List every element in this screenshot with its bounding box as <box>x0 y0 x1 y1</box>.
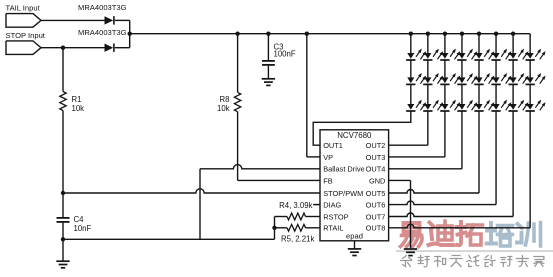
svg-text:C4: C4 <box>74 215 85 224</box>
junction rail/LED column 1 <box>409 32 413 36</box>
watermark logo text 易迪拓培训 <box>401 221 541 247</box>
LED D63 column 6 row 3 <box>491 100 511 111</box>
LED D42 column 4 row 2 <box>457 73 477 84</box>
svg-text:OUT8: OUT8 <box>366 224 386 233</box>
watermark underline <box>396 250 553 252</box>
LED D31 column 3 row 1 <box>440 49 460 60</box>
resistor R5 2.21k <box>275 224 321 243</box>
svg-text:R5, 2.21k: R5, 2.21k <box>281 235 314 244</box>
LED D62 column 6 row 2 <box>491 73 511 84</box>
wire LED column 7 <box>512 34 514 104</box>
LED D13 column 1 row 3 <box>406 100 426 111</box>
junction rail/LED column 2 <box>426 32 430 36</box>
LED D12 column 1 row 2 <box>406 73 426 84</box>
svg-text:OUT5: OUT5 <box>366 189 386 198</box>
resistor R8 10k <box>217 34 241 181</box>
wire TAIL input to D1 anode <box>41 19 105 21</box>
LED D11 column 1 row 1 <box>406 49 426 60</box>
resistor R4 3.09k <box>275 201 321 220</box>
LED D72 column 7 row 2 <box>508 73 528 84</box>
wire D1 cathode to VP node <box>115 20 130 47</box>
LED D41 column 4 row 1 <box>457 49 477 60</box>
LED D73 column 7 row 3 <box>508 100 528 111</box>
wire LED column 2 <box>427 34 429 104</box>
svg-text:DIAG: DIAG <box>323 201 341 210</box>
ground epad <box>348 249 361 256</box>
ground GND pin <box>404 249 417 256</box>
svg-text:VP: VP <box>323 153 333 162</box>
LED D82 column 8 row 2 <box>526 73 546 84</box>
svg-text:R8: R8 <box>220 95 230 104</box>
wire LED column 1 <box>410 34 412 104</box>
ground main <box>56 261 69 268</box>
svg-text:STOP/PWM: STOP/PWM <box>323 189 363 198</box>
wire LED column 3 <box>444 34 446 104</box>
junction C4/ground bus <box>61 237 65 241</box>
wire OUT4 to LED column <box>389 111 462 169</box>
wire LED column 5 <box>478 34 480 104</box>
node STOP Input <box>6 31 46 55</box>
svg-text:MRA4003T3G: MRA4003T3G <box>78 3 127 12</box>
svg-text:OUT4: OUT4 <box>366 165 386 174</box>
svg-text:epad: epad <box>346 232 363 241</box>
wire STOP input to D2 anode <box>41 47 105 49</box>
capacitor C3 100nF <box>262 34 296 78</box>
LED D33 column 3 row 3 <box>440 100 460 111</box>
wire STOP/PWM to R1-C4 node <box>63 189 320 193</box>
LED D83 column 8 row 3 <box>526 100 546 111</box>
wire LED column 6 <box>495 34 497 104</box>
wire DIAG stub <box>313 204 320 206</box>
diode D2 MRA4003T3G <box>78 28 127 52</box>
svg-text:GND: GND <box>369 176 385 185</box>
svg-text:RSTOP: RSTOP <box>323 212 348 221</box>
node TAIL Input <box>6 4 42 28</box>
LED D51 column 5 row 1 <box>474 49 494 60</box>
wire ground bus <box>63 217 275 240</box>
IC U1 NCV7680 LED driver <box>320 130 389 241</box>
diode D1 MRA4003T3G <box>78 3 127 24</box>
svg-text:10k: 10k <box>72 104 85 113</box>
svg-text:OUT6: OUT6 <box>366 201 386 210</box>
wire OUT6 to LED column <box>389 111 496 205</box>
junction rail/LED column 3 <box>443 32 447 36</box>
LED D22 column 2 row 2 <box>423 73 443 84</box>
capacitor C4 10nF <box>57 193 92 261</box>
junction rail/R8 <box>235 32 239 36</box>
junction diode-OR output <box>128 32 132 36</box>
svg-text:STOP Input: STOP Input <box>6 31 46 40</box>
svg-text:10nF: 10nF <box>74 224 92 233</box>
ground C3 <box>262 79 275 86</box>
LED D43 column 4 row 3 <box>457 100 477 111</box>
LED D61 column 6 row 1 <box>491 49 511 60</box>
resistor R1 10k <box>60 48 84 193</box>
wire OUT2 to LED column <box>389 111 428 145</box>
junction R4/R5 ground node <box>272 226 276 230</box>
svg-text:OUT7: OUT7 <box>366 212 386 221</box>
wire GND pin down <box>389 180 411 248</box>
svg-text:100nF: 100nF <box>274 49 296 58</box>
junction STOP/R1 <box>61 46 65 50</box>
svg-text:MRA4003T3G: MRA4003T3G <box>78 28 127 37</box>
wire epad to ground <box>354 241 356 249</box>
svg-text:OUT3: OUT3 <box>366 153 386 162</box>
watermark tagline 射频和天线设计专家 <box>401 256 544 267</box>
wire OUT7 to LED column <box>389 111 513 217</box>
svg-text:Ballast Drive: Ballast Drive <box>323 165 364 174</box>
LED D23 column 2 row 3 <box>423 100 443 111</box>
junction rail/LED column 5 <box>477 32 481 36</box>
svg-text:RTAIL: RTAIL <box>323 224 343 233</box>
wire VP pin to rail <box>307 34 320 157</box>
svg-text:10k: 10k <box>217 104 230 113</box>
svg-text:R4, 3.09k: R4, 3.09k <box>279 201 312 210</box>
svg-text:NCV7680: NCV7680 <box>337 131 372 140</box>
svg-text:R1: R1 <box>72 95 82 104</box>
wire OUT1 to LED column 1 <box>313 111 411 145</box>
LED D21 column 2 row 1 <box>423 49 443 60</box>
LED D81 column 8 row 1 <box>526 49 546 60</box>
junction rail/C3 <box>266 32 270 36</box>
svg-text:TAIL Input: TAIL Input <box>6 4 41 13</box>
LED D52 column 5 row 2 <box>474 73 494 84</box>
svg-text:OUT1: OUT1 <box>323 141 343 150</box>
LED D71 column 7 row 1 <box>508 49 528 60</box>
wire VP supply rail <box>130 33 530 35</box>
svg-text:FB: FB <box>323 176 333 185</box>
junction R1/C4/STOP-PWM node <box>61 191 65 195</box>
wire LED column 8 <box>529 34 531 104</box>
svg-text:OUT2: OUT2 <box>366 141 386 150</box>
LED D53 column 5 row 3 <box>474 100 494 111</box>
wire Ballast Drive to ground bus <box>200 165 320 240</box>
wire OUT8 to LED column <box>389 111 531 228</box>
junction rail/LED column 7 <box>511 32 515 36</box>
wire R8 to FB pin <box>238 179 320 181</box>
LED D32 column 3 row 2 <box>440 73 460 84</box>
junction rail/LED column 6 <box>494 32 498 36</box>
wire LED column 4 <box>461 34 463 104</box>
junction rail/VP <box>305 32 309 36</box>
wire OUT5 to LED column <box>389 111 479 193</box>
junction rail/LED column 4 <box>460 32 464 36</box>
wire OUT3 to LED column <box>389 111 445 157</box>
wire D2 cathode to VP node <box>115 47 130 49</box>
